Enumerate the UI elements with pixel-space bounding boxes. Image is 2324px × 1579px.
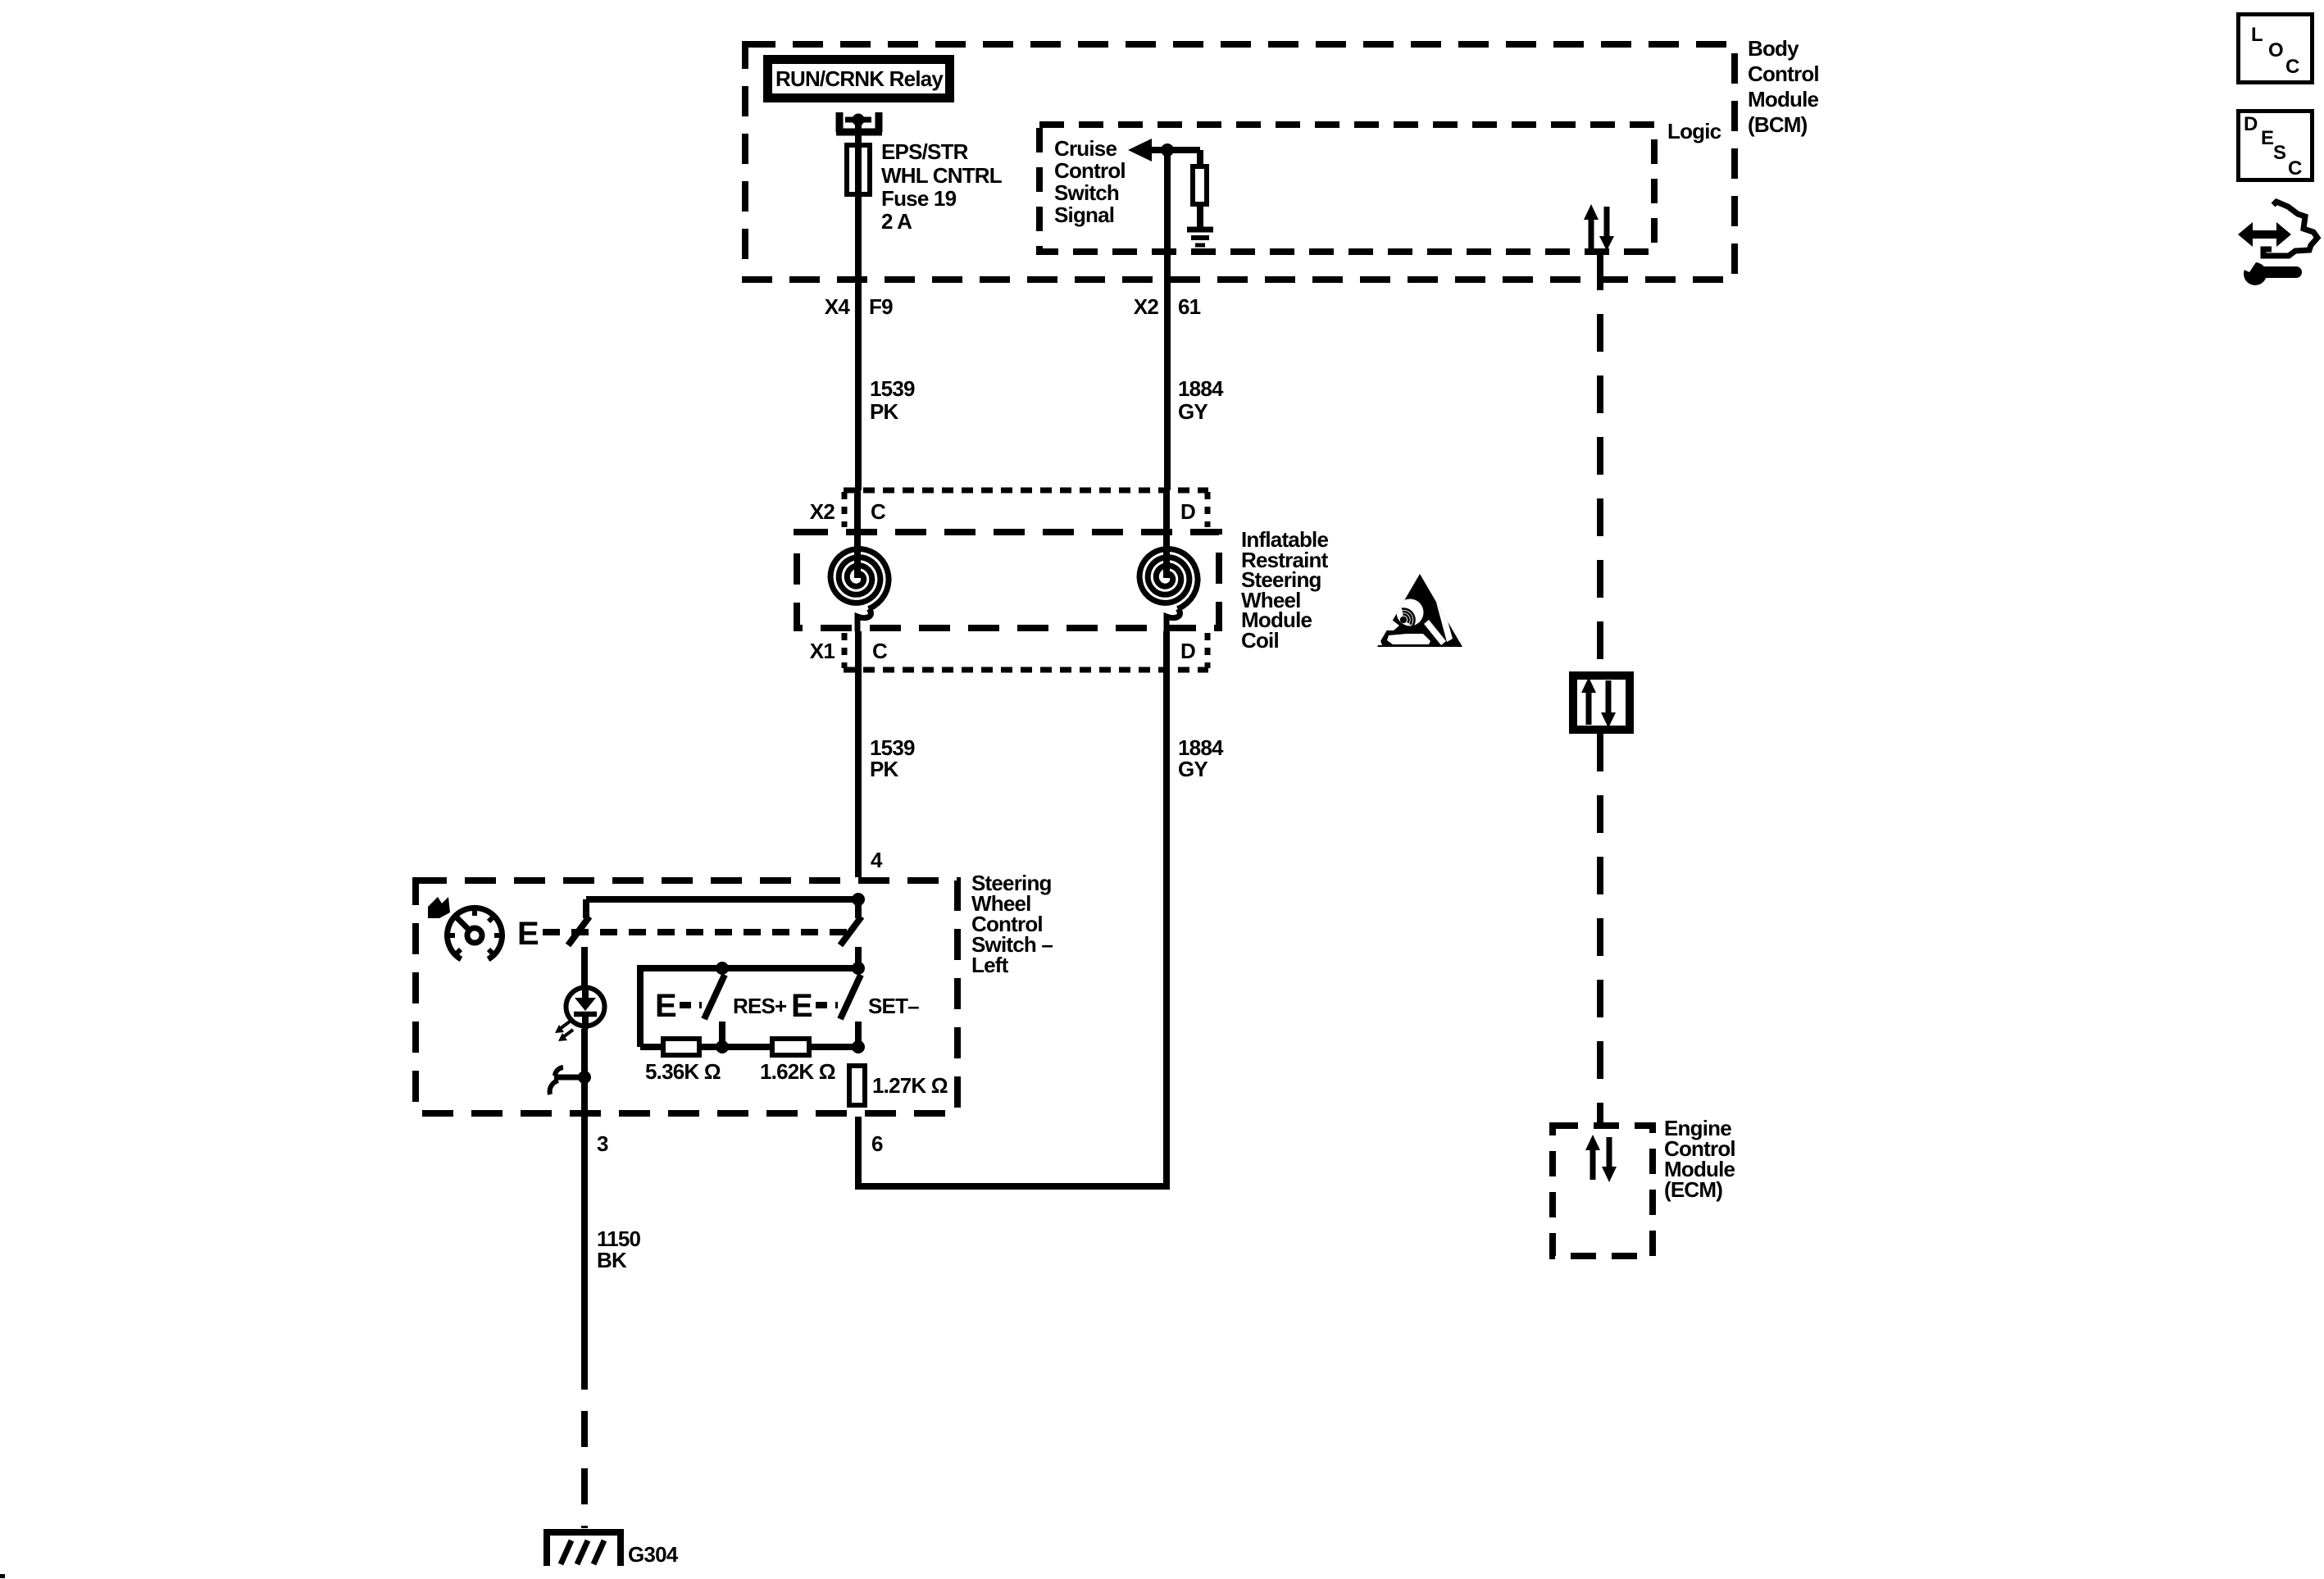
serial data up/down arrows in Logic block bbox=[1584, 204, 1614, 251]
svg-text:PK: PK bbox=[870, 399, 899, 424]
svg-text:D: D bbox=[2244, 113, 2258, 135]
label Steering Wheel Control Switch - Left bbox=[971, 871, 1053, 977]
coil winding left clockspring (1539 PK path) bbox=[830, 490, 889, 631]
connector X2 dashed box (coil top) bbox=[844, 490, 1208, 527]
wire pin3 ground lead solid bbox=[581, 1117, 588, 1354]
switch RES+ blade bbox=[704, 975, 725, 1019]
svg-text:F9: F9 bbox=[869, 294, 893, 319]
connector X1 dashed box (coil bottom) bbox=[844, 633, 1208, 670]
wire label 1150 BK bbox=[597, 1226, 641, 1272]
svg-text:C: C bbox=[2288, 157, 2302, 180]
wire 1884 GY lower segment (x=1423) down then left to pin 6 bbox=[858, 631, 1167, 1186]
label Body Control Module (BCM) bbox=[1748, 36, 1819, 137]
svg-text:6: 6 bbox=[871, 1131, 883, 1156]
svg-text:RUN/CRNK Relay: RUN/CRNK Relay bbox=[775, 66, 944, 91]
linkage dashed RES+ bbox=[680, 1002, 702, 1008]
logic block dashed outline inside BCM bbox=[1039, 125, 1654, 252]
svg-text:4: 4 bbox=[871, 848, 883, 872]
wire top bus inside switch box bbox=[586, 896, 858, 903]
label fuse EPS/STR WHL CNTRL Fuse 19 2 A bbox=[881, 139, 1003, 234]
svg-text:1.62K Ω: 1.62K Ω bbox=[760, 1059, 835, 1084]
icon LOC reference box bbox=[2239, 15, 2313, 83]
ground internal BCM bbox=[1187, 230, 1213, 245]
wire RES+ loop: left rail and top bus bbox=[640, 968, 858, 1047]
svg-text:5.36K Ω: 5.36K Ω bbox=[645, 1059, 721, 1084]
serial data connector box with up/down arrows bbox=[1573, 676, 1630, 730]
module box Body Control Module (BCM) dashed outline bbox=[745, 44, 1735, 280]
pin label X2 61 bbox=[1134, 294, 1201, 319]
wire from relay through fuse down to BCM edge (1539 PK feed, x=1047) bbox=[855, 124, 862, 490]
LED indicator diode bbox=[566, 986, 605, 1029]
node junction pin4 wire to switch bus bbox=[852, 893, 865, 906]
svg-text:EPS/STR: EPS/STR bbox=[881, 139, 969, 164]
icon DESC reference box bbox=[2239, 111, 2313, 180]
wire cruise signal 1884 GY feed (x=1424) down through BCM edge bbox=[1164, 150, 1171, 490]
wire junction to pull-up resistor bbox=[1197, 150, 1203, 164]
wire LED to lamp contact and pin 3 bbox=[581, 1029, 588, 1117]
svg-text:E: E bbox=[517, 916, 539, 952]
node junction SET- top on main wire bbox=[852, 962, 865, 975]
svg-text:Signal: Signal bbox=[1054, 202, 1114, 227]
svg-text:D: D bbox=[1180, 499, 1195, 524]
warning triangle SIR caution icon bbox=[1375, 574, 1462, 647]
svg-text:GY: GY bbox=[1178, 399, 1207, 424]
svg-text:Switch: Switch bbox=[1054, 180, 1119, 205]
svg-text:D: D bbox=[1180, 639, 1195, 663]
serial data up/down arrows in ECM bbox=[1585, 1135, 1617, 1182]
svg-text:Module: Module bbox=[1748, 87, 1819, 111]
switch cruise on/off left contact and blade bbox=[568, 899, 589, 945]
resistor 5.36K bbox=[663, 1039, 699, 1055]
svg-text:Logic: Logic bbox=[1667, 119, 1721, 143]
wire label 1884 GY (lower) bbox=[1178, 735, 1224, 781]
switch cruise on/off right contact and blade bbox=[840, 899, 862, 945]
svg-text:Fuse 19: Fuse 19 bbox=[881, 186, 957, 211]
signal arrow into Cruise Control input bbox=[1128, 139, 1200, 162]
wire resistor to ground bbox=[1197, 207, 1203, 227]
label Cruise Control Switch Signal bbox=[1054, 136, 1126, 227]
module box Inflatable Restraint Steering Wheel Module Coil bbox=[797, 532, 1219, 628]
icon harness repair (double arrow, outline, wrench) bbox=[2238, 202, 2317, 285]
svg-text:Body: Body bbox=[1748, 36, 1799, 61]
svg-text:(BCM): (BCM) bbox=[1748, 112, 1808, 137]
svg-text:WHL CNTRL: WHL CNTRL bbox=[881, 163, 1003, 188]
svg-text:SET–: SET– bbox=[868, 994, 919, 1018]
module box Engine Control Module (ECM) bbox=[1553, 1126, 1653, 1256]
fuse EPS/STR WHL CNTRL Fuse 19 2A bbox=[847, 145, 870, 194]
stray mark bottom-left bbox=[0, 1574, 5, 1578]
switch SET- blade bbox=[840, 975, 861, 1019]
label Inflatable Restraint Steering Wheel Module Coil bbox=[1241, 527, 1329, 653]
svg-text:G304: G304 bbox=[628, 1542, 679, 1567]
lamp return contact symbol bbox=[550, 1067, 591, 1094]
svg-text:X2: X2 bbox=[1134, 294, 1159, 319]
svg-text:RES+: RES+ bbox=[733, 994, 787, 1018]
svg-text:S: S bbox=[2273, 142, 2286, 164]
svg-text:Control: Control bbox=[1748, 61, 1819, 86]
node junction resistor bus right bbox=[852, 1040, 865, 1053]
svg-text:Coil: Coil bbox=[1241, 628, 1279, 653]
LED light emission arrows bbox=[555, 1022, 573, 1041]
module box Steering Wheel Control Switch - Left bbox=[416, 881, 957, 1113]
relay output terminal symbol bbox=[836, 112, 882, 132]
svg-text:X2: X2 bbox=[810, 499, 835, 524]
wire label 1539 PK (upper) bbox=[870, 376, 915, 424]
svg-text:Left: Left bbox=[971, 953, 1009, 977]
node junction on cruise signal wire bbox=[1161, 143, 1174, 157]
wire serial data dashed upper (x=1952) bbox=[1597, 253, 1603, 671]
svg-text:1.27K Ω: 1.27K Ω bbox=[872, 1073, 948, 1098]
pin label X2 C D (coil top) bbox=[810, 499, 1195, 524]
svg-text:2 A: 2 A bbox=[881, 209, 912, 234]
label Engine Control Module (ECM) bbox=[1664, 1116, 1735, 1202]
svg-text:(ECM): (ECM) bbox=[1664, 1177, 1722, 1202]
wire serial data dashed lower bbox=[1597, 734, 1603, 1122]
switch SET- lower stub bbox=[855, 1022, 862, 1047]
wire 1539 PK lower segment (x=1047) bbox=[855, 631, 862, 877]
svg-text:X1: X1 bbox=[810, 639, 835, 663]
pin label X1 C D (coil bottom) bbox=[810, 639, 1195, 663]
resistor pull-up in BCM bbox=[1193, 166, 1207, 204]
switch RES+ lower stub bbox=[719, 1022, 725, 1047]
pin label X4 F9 bbox=[825, 294, 893, 319]
wire label 1539 PK (lower) bbox=[870, 735, 915, 781]
svg-text:PK: PK bbox=[870, 757, 899, 781]
svg-text:1539: 1539 bbox=[870, 376, 915, 401]
svg-text:O: O bbox=[2268, 39, 2284, 61]
gauge icon cruise indicator bbox=[448, 908, 503, 959]
svg-text:GY: GY bbox=[1178, 757, 1207, 781]
svg-text:Control: Control bbox=[1054, 158, 1126, 183]
wire cruise LED branch down from left blade bbox=[581, 947, 588, 986]
svg-text:L: L bbox=[2251, 24, 2263, 46]
resistor 1.62K bbox=[772, 1039, 809, 1055]
wire main between cruise switch and RES junction bbox=[855, 947, 862, 968]
coil winding right clockspring (1884 GY path) bbox=[1139, 490, 1198, 631]
linkage dashed SET- bbox=[816, 1002, 838, 1008]
wire label 1884 GY (upper) bbox=[1178, 376, 1224, 424]
arrow marker top-left of gauge bbox=[428, 897, 450, 918]
ground G304 symbol bbox=[547, 1532, 621, 1566]
svg-text:61: 61 bbox=[1178, 294, 1201, 319]
svg-text:BK: BK bbox=[597, 1248, 627, 1272]
svg-text:E: E bbox=[2261, 127, 2274, 149]
svg-text:E: E bbox=[791, 988, 812, 1024]
wire pin3 ground lead dashed bbox=[581, 1354, 588, 1528]
svg-text:E: E bbox=[655, 988, 676, 1024]
resistor 1.27K bbox=[849, 1066, 865, 1105]
svg-text:C: C bbox=[872, 639, 888, 663]
svg-text:1884: 1884 bbox=[1178, 376, 1224, 401]
svg-text:C: C bbox=[2285, 56, 2299, 78]
svg-text:C: C bbox=[871, 499, 886, 524]
wire resistor bus bbox=[640, 1044, 858, 1050]
svg-text:3: 3 bbox=[597, 1131, 608, 1156]
svg-text:Cruise: Cruise bbox=[1054, 136, 1117, 161]
linkage dashed cruise on/off bbox=[543, 929, 851, 935]
svg-text:X4: X4 bbox=[825, 294, 851, 319]
relay RUN/CRNK Relay label box bbox=[768, 60, 950, 98]
node junction RES+ top bbox=[716, 962, 729, 975]
node junction resistor bus left bbox=[716, 1040, 729, 1053]
